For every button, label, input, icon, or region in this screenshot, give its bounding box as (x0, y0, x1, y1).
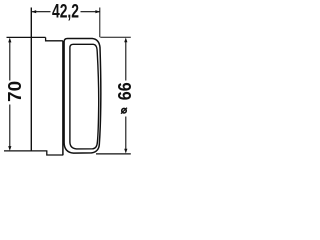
technical dimension drawing of lamp, side view (0, 0, 133, 160)
svg-text:42,2: 42,2 (52, 1, 79, 22)
housing rim front edge (62, 41, 64, 155)
housing top step (46, 37, 63, 40)
arrowhead 66 bottom (124, 149, 127, 154)
diameter symbol (121, 108, 127, 114)
arrowhead 70 top (8, 38, 11, 43)
arrowhead 66 top (124, 38, 127, 43)
dimension line 42,2 right segment (81, 11, 100, 13)
extension line right of 42,2 (99, 8, 101, 38)
arrowhead 42,2 right (95, 10, 100, 13)
dimension line 66 lower segment (125, 117, 127, 152)
lens outer outline (64, 39, 101, 154)
dimension line 70 lower segment (9, 105, 11, 150)
svg-text:66: 66 (115, 82, 133, 100)
housing bottom step (47, 151, 64, 155)
extension line / rear mounting surface (30, 8, 32, 152)
dimension line 70 upper segment (9, 40, 11, 81)
lens inner contour (70, 44, 99, 149)
arrowhead 42,2 left (31, 10, 36, 13)
extension line 66 top (100, 36, 131, 38)
extension line 66 bottom (96, 153, 131, 155)
dimension line 66 upper segment (125, 40, 127, 81)
arrowhead 70 bottom (8, 146, 11, 151)
svg-text:70: 70 (5, 81, 25, 102)
extension line bottom rear + 70 bottom (4, 150, 47, 152)
dimension line 42,2 left segment (32, 11, 51, 13)
extension line top edge + 70 top (7, 36, 46, 38)
